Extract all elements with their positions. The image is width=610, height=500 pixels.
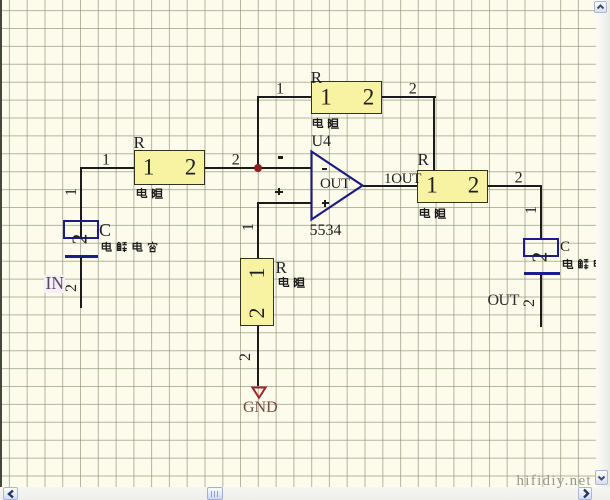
wire R1 pin2 to op-amp minus input [204, 167, 311, 169]
R4 pin2 digit [468, 174, 480, 197]
junction node (dot) [254, 164, 262, 172]
wire IN vertical upper (into C1 top plate) [80, 167, 82, 238]
GND label [243, 400, 278, 416]
wire R4 pin2 horizontal [488, 185, 542, 187]
vertical scrollbar track [596, 0, 610, 487]
watermark hifidiy.net [517, 474, 592, 489]
wire R3 pin2 down to GND [257, 326, 259, 386]
R2 value 电阻 [311, 117, 342, 130]
R2 designator R [311, 69, 322, 86]
port IN [44, 275, 65, 293]
R1 external pin number 2 [232, 152, 240, 168]
R1 pin2 digit [185, 156, 197, 179]
op-amp designator U4 [312, 134, 332, 150]
C2 pin2 digit (rotated, inside) [529, 251, 550, 262]
C1 bottom plate bar [65, 255, 99, 258]
C2 top plate rectangle [523, 238, 560, 257]
op-amp triangle [312, 152, 363, 220]
R1 value 电阻 [135, 187, 166, 200]
R2 external pin number 2 [409, 81, 417, 97]
scroll up button [594, 1, 607, 14]
R1 pin1 digit [143, 156, 155, 179]
R4 value 电阻 [418, 207, 449, 220]
wire R2 pin2 horizontal [382, 96, 436, 98]
R3 external pin number 2 (rotated) [238, 353, 254, 361]
R3 value 电阻 [277, 276, 308, 289]
CJK glyph symbol defs [0, 0, 1, 1]
net label 1OUT at R4 pin1 [384, 172, 421, 187]
R2 external pin number 1 [276, 81, 284, 97]
C2 pin1 number (rotated) [524, 206, 540, 214]
R3 pin2 digit (rotated) [246, 307, 268, 318]
horizontal scrollbar thumb [207, 487, 223, 500]
C1 pin1 number (rotated) [64, 188, 80, 196]
scroll right button [578, 487, 592, 500]
op-amp OUT pin name [320, 177, 350, 192]
wire plus-input vertical down to R3 pin1 [257, 202, 259, 259]
wire down to C2 top plate [540, 185, 542, 238]
port OUT [488, 293, 519, 309]
wire C1 bottom to IN [80, 257, 82, 308]
R4 pin1 digit [426, 174, 438, 197]
wire IN horizontal to R1 pin1 [80, 167, 136, 169]
R3 pin1 digit (rotated) [246, 268, 268, 279]
C2 value 电解电容 (clipped) [561, 258, 597, 272]
C1 value 电解电容 [100, 241, 162, 254]
op-amp internal minus [322, 168, 328, 170]
wire feedback horizontal to R2 pin1 [257, 96, 312, 98]
wire op-amp output to R4 pin1 [363, 185, 418, 187]
R1 external pin number 1 [102, 152, 110, 168]
external plus (non-inverting input) [275, 191, 283, 193]
C1 designator C [99, 221, 111, 239]
C2 bottom plate bar [524, 272, 560, 275]
R4 designator R [418, 151, 429, 168]
wire R2 pin2 vertical down to R4 top [433, 96, 435, 171]
external minus (inverting input) [278, 156, 283, 159]
wire plus-input horizontal [257, 202, 312, 204]
C2 designator C [560, 240, 570, 255]
scroll left button [3, 487, 18, 500]
R2 pin1 digit [320, 85, 332, 108]
R2 pin2 digit [363, 85, 375, 108]
R3 designator R [276, 259, 287, 276]
op-amp internal plus [322, 202, 329, 204]
bottom scrollbar track [0, 487, 610, 500]
R4 external pin number 2 [515, 170, 523, 186]
wire C2 bottom to OUT [540, 275, 542, 327]
C1 pin2 digit (rotated, inside) [70, 234, 91, 245]
wire feedback vertical (junction to top) [257, 96, 259, 169]
GND symbol triangle [252, 388, 265, 398]
C1 external pin 2 (rotated) [64, 284, 80, 292]
C2 external pin 2 (rotated) [522, 299, 538, 307]
scroll down button [595, 470, 608, 485]
C1 top plate rectangle [63, 220, 99, 239]
op-amp value 5534 [310, 223, 342, 239]
R1 designator R [134, 134, 145, 151]
R3 external pin number 1 (rotated) [241, 223, 257, 231]
left window border [0, 0, 2, 497]
